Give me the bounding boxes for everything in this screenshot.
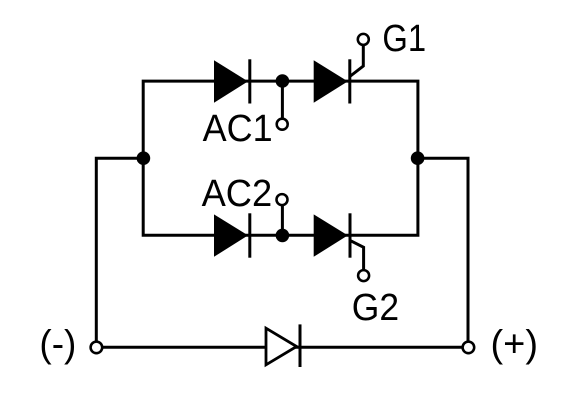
svg-text:(-): (-)	[39, 323, 76, 365]
svg-text:G1: G1	[382, 18, 426, 60]
svg-text:G2: G2	[352, 287, 399, 329]
svg-text:AC1: AC1	[203, 108, 273, 150]
svg-text:AC2: AC2	[202, 173, 273, 215]
svg-text:(+): (+)	[491, 323, 539, 365]
